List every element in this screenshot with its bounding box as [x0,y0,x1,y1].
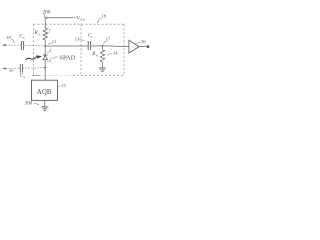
svg-text:R: R [91,52,95,57]
leader for 5 [47,60,49,62]
wire node 11 down to SPAD [44,46,46,55]
node 11 junction dot [44,45,46,47]
wire resistor bottom to node 11 [44,40,46,46]
leader for 13 [79,39,84,40]
dashed partition inside box [80,24,82,75]
wire Rb to ground [102,62,104,68]
dashed box 18 bottom edge [73,75,124,77]
svg-text:10: 10 [6,35,11,40]
svg-text:b: b [96,54,98,58]
svg-text:11: 11 [52,39,57,44]
wire arrow to Ca [6,67,20,69]
dashed box 18 top edge [34,23,125,25]
svg-text:R: R [34,31,38,36]
svg-text:14: 14 [113,51,118,56]
leader for 2 [47,52,49,53]
wire Cb to node 11 [24,44,46,47]
capacitor Cc [87,41,89,50]
svg-text:300: 300 [25,102,33,107]
buffer U1 triangle [129,40,139,53]
wire Cc to node 17 [91,45,103,47]
svg-text:17: 17 [106,36,111,41]
node 17 junction dot [102,45,104,47]
wire SPAD anode down [44,60,46,80]
svg-text:13: 13 [75,37,80,42]
leader for SPAD label [51,57,59,58]
SPAD diode triangle [43,55,48,60]
svg-text:b: b [23,36,25,40]
leader for 4 [12,69,15,72]
resistor Rb [102,46,104,50]
svg-text:15: 15 [61,83,66,88]
leader for 200 [44,14,45,17]
leader for 7 [46,33,49,35]
ground (under AQB) [41,106,48,108]
ground (under Rb) [99,67,106,69]
dashed box 18 left edge [33,24,35,75]
svg-text:16: 16 [141,39,146,44]
capacitor Cb [20,41,22,50]
dashed box 18 right edge [123,24,125,75]
svg-text:18: 18 [102,14,107,19]
input arrow left (Ca row) [2,67,6,69]
AQB block [32,80,58,100]
svg-text:SPAD: SPAD [59,55,75,62]
leader for 11 [48,43,52,44]
leader for 16 [135,42,140,43]
wire AQB to ground [44,101,46,107]
leader for 10 [11,40,15,43]
SPAD diode cathode bar [43,54,48,56]
leader for 17 [104,41,107,44]
svg-text:AQB: AQB [37,88,52,96]
wire supply vertical [44,18,46,28]
leader for 14 [107,54,113,55]
resistor Rq [43,28,47,40]
wire node 17 to buffer [103,45,130,48]
wire Ca to node 5 [23,67,46,69]
output wire [139,46,147,48]
leader arrow to supply node [47,17,74,19]
svg-text:q: q [39,33,41,37]
leader for 18 [97,18,102,23]
node junction dot [44,67,46,69]
leader for 15 [57,86,60,87]
input arrow left (Cb row) [2,44,6,46]
svg-text:200: 200 [43,10,51,16]
wire arrow to Cb [6,44,22,46]
photon arrow [26,57,38,60]
output node dot [147,45,150,48]
leader for 300 [34,103,39,104]
capacitor Ca [19,64,21,73]
wire node 11 to Cc [45,45,88,47]
